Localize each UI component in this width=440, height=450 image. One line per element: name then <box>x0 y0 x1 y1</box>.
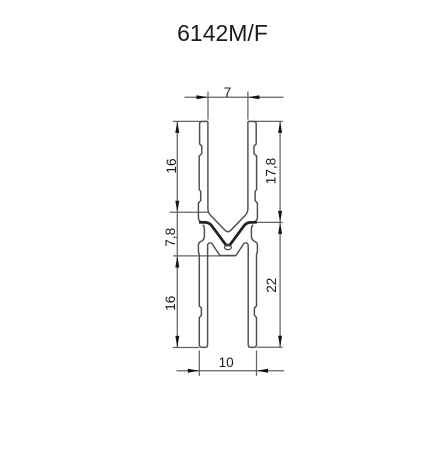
svg-text:22: 22 <box>264 278 279 293</box>
svg-text:16: 16 <box>163 296 178 311</box>
svg-text:16: 16 <box>164 158 179 173</box>
svg-text:17,8: 17,8 <box>264 158 279 184</box>
svg-text:6142M/F: 6142M/F <box>177 20 268 46</box>
svg-text:7: 7 <box>224 85 232 100</box>
svg-text:7,8: 7,8 <box>163 228 178 247</box>
svg-text:10: 10 <box>219 355 235 370</box>
